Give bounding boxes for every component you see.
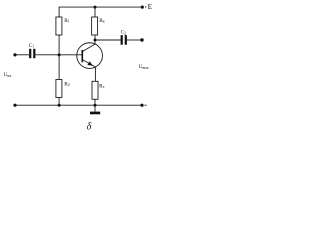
wire Rk top to top rail	[94, 7, 96, 17]
svg-text:δ: δ	[87, 122, 92, 133]
node dot base	[58, 53, 61, 56]
label +E	[145, 6, 146, 8]
transistor base bar	[82, 50, 84, 62]
wire collector node to C2	[95, 39, 121, 41]
wire Rk bottom to collector node	[94, 35, 96, 44]
resistor R2	[56, 80, 62, 98]
svg-text:R1: R1	[64, 18, 70, 24]
ground stem	[94, 105, 96, 111]
node dot under Re (ground tap)	[94, 104, 97, 107]
ground bar	[90, 112, 100, 115]
wire emitter to Re	[94, 67, 96, 81]
resistor R1	[56, 17, 62, 35]
capacitor C2 plates	[121, 35, 127, 45]
bottom-right terminal dot	[140, 104, 143, 107]
resistor Rk (collector)	[92, 17, 98, 35]
wire C2 to output terminal	[127, 39, 141, 41]
node dot top rail	[94, 6, 97, 9]
capacitor C1 plates	[29, 49, 35, 58]
svg-text:C2: C2	[121, 31, 126, 36]
wire bottom rail	[15, 104, 142, 106]
input terminal dot	[13, 53, 16, 56]
wire C1 to transistor base	[36, 54, 83, 56]
svg-text:E: E	[148, 4, 152, 11]
wire minus tick bottom right	[144, 104, 146, 106]
transistor collector diagonal	[83, 44, 95, 51]
wire input terminal to C1	[15, 54, 29, 56]
wire base node to R2 top	[58, 55, 60, 80]
wire Re bottom to bottom rail	[94, 99, 96, 105]
bottom-left terminal dot	[13, 104, 16, 107]
node dot collector	[94, 39, 97, 42]
wire R2 bottom to bottom rail	[58, 98, 60, 106]
transistor emitter arrow	[87, 61, 93, 66]
transistor emitter diagonal	[83, 60, 96, 67]
output terminal dot	[140, 38, 143, 41]
svg-text:Rк: Rк	[99, 18, 105, 24]
svg-text:C1: C1	[29, 44, 34, 49]
svg-text:Uвх: Uвх	[4, 72, 13, 78]
terminal dot +E	[141, 6, 144, 9]
svg-text:R2: R2	[64, 81, 70, 87]
node dot under R2	[58, 104, 61, 107]
resistor Re (emitter)	[92, 81, 98, 99]
svg-text:Rэ: Rэ	[99, 83, 105, 89]
wire top rail with corner to R1	[59, 7, 142, 17]
transistor VT circle	[77, 43, 103, 69]
wire R1 bottom to base node	[58, 35, 60, 55]
